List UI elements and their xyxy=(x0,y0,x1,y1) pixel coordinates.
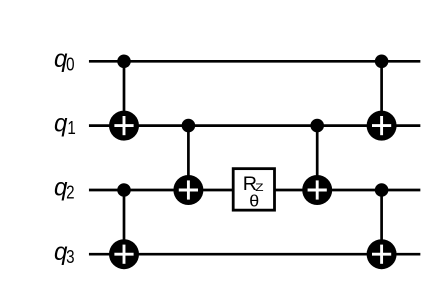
svg-text:1: 1 xyxy=(67,117,75,138)
svg-text:3: 3 xyxy=(66,246,74,267)
svg-text:2: 2 xyxy=(66,182,74,203)
svg-text:0: 0 xyxy=(66,54,74,75)
svg-text:θ: θ xyxy=(249,191,259,211)
svg-text:q: q xyxy=(54,110,68,138)
